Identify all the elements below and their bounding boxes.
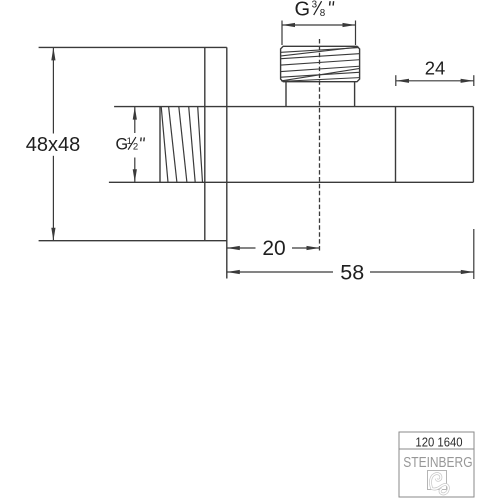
svg-text:STEINBERG: STEINBERG (403, 454, 472, 471)
G1/2 female thread hatch (161, 107, 202, 183)
brand logo mark (428, 471, 449, 494)
dashed centerline of outlet (319, 39, 321, 252)
dimension 58 left arrow (227, 270, 240, 274)
dimension G3/8 extension and dimension lines (282, 21, 356, 46)
dimension label G3/8" (295, 0, 334, 20)
svg-text:48x48: 48x48 (26, 134, 81, 156)
dimension 20 right arrow (307, 246, 320, 250)
svg-text:24: 24 (425, 57, 446, 78)
dimension 58 right arrow (461, 270, 474, 274)
wall plate inner vertical edge (204, 47, 206, 240)
dimension label G1/2" (116, 135, 145, 153)
svg-text:8: 8 (320, 8, 326, 19)
wall plate top edge (39, 46, 227, 48)
dimension 24 extension stubs and line (396, 75, 474, 86)
dimension G1/2 upper arrow (133, 107, 137, 120)
dimension 58 right extension line (473, 229, 475, 279)
dimension 48x48 line (52, 47, 54, 240)
valve body bottom edge (109, 181, 474, 183)
compression nut G3/8 outline (281, 46, 360, 81)
svg-text:120 1640: 120 1640 (415, 435, 462, 450)
dimension 24 left arrow (396, 79, 409, 83)
dimension 48x48 lower arrow (51, 228, 55, 241)
compression nut knurl/thread lines (281, 47, 360, 82)
svg-text:20: 20 (262, 237, 285, 260)
cap divider line (395, 107, 397, 183)
dimension G1/2 line (134, 107, 136, 183)
svg-text:58: 58 (340, 260, 364, 284)
outlet neck left edge (285, 82, 287, 107)
valve body top edge (114, 106, 473, 108)
title block frame (399, 432, 474, 497)
G1/2 inlet thread boundary line (159, 107, 161, 183)
wall plate right edge with extension to 58 dimension (226, 47, 228, 278)
dimension G3/8 left arrow (282, 23, 295, 27)
valve body right end edge (472, 107, 474, 183)
dimension 20 left arrow (227, 246, 240, 250)
dimension G1/2 lower arrow (133, 169, 137, 182)
dimension 20 line (227, 247, 320, 249)
wall plate bottom edge (39, 240, 227, 242)
dimension 48x48 upper arrow (51, 47, 55, 60)
dimension 58 line (227, 271, 474, 273)
dimension G3/8 right arrow (343, 23, 356, 27)
svg-text:G: G (295, 0, 311, 20)
outlet neck right edge (354, 82, 356, 107)
svg-text:2: 2 (133, 142, 138, 153)
dimension 24 right arrow (461, 79, 474, 83)
